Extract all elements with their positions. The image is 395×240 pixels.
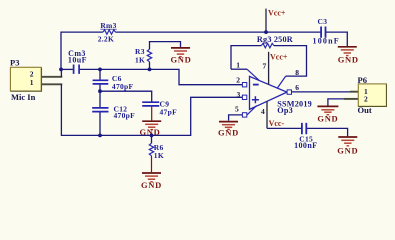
junction R3 bottom xyxy=(148,68,152,72)
svg-text:2: 2 xyxy=(236,76,240,85)
pin1 internal slant xyxy=(247,69,260,81)
svg-text:1: 1 xyxy=(30,78,34,87)
resistor R3 xyxy=(149,62,151,70)
capacitor C12 xyxy=(99,91,101,107)
svg-text:GND: GND xyxy=(337,146,358,156)
ground (P6 pin2) xyxy=(317,106,338,123)
wire bias node to Cm3 xyxy=(61,68,73,70)
svg-text:1: 1 xyxy=(236,60,240,69)
junction C6/C12/C9 node xyxy=(98,89,102,93)
svg-text:47pF: 47pF xyxy=(160,107,178,116)
svg-text:Vcc+: Vcc+ xyxy=(270,53,288,62)
svg-text:GND: GND xyxy=(171,55,192,65)
ground (C9) xyxy=(140,121,162,137)
svg-text:5: 5 xyxy=(235,104,239,113)
svg-text:Vcc+: Vcc+ xyxy=(268,8,286,17)
svg-text:Mic In: Mic In xyxy=(11,92,36,102)
minus mark xyxy=(253,84,259,86)
ground (R3) xyxy=(171,48,192,65)
resistor Rg3 loop wires xyxy=(231,46,307,77)
svg-text:100nF: 100nF xyxy=(313,37,340,46)
wire bottom rail P3 pin1 to op-amp pin3 xyxy=(61,84,242,135)
pin stub P3-2 xyxy=(42,76,63,78)
svg-text:2.2K: 2.2K xyxy=(98,35,114,44)
wire P3 pin2 up to bias node xyxy=(60,69,62,76)
resistor Rm3 xyxy=(103,30,116,34)
svg-text:1K: 1K xyxy=(154,151,164,160)
pin 4 Vcc- stub xyxy=(266,101,268,128)
capacitor Cm3 xyxy=(74,65,80,74)
svg-text:470pF: 470pF xyxy=(114,111,136,120)
svg-text:Op3: Op3 xyxy=(277,106,293,115)
svg-text:4: 4 xyxy=(261,107,265,116)
wire C9 to ground xyxy=(151,107,153,121)
svg-text:GND: GND xyxy=(218,127,239,137)
pin 3 square xyxy=(242,95,246,99)
wire op-amp output pin6 to P6 xyxy=(292,91,351,93)
pin stub P6-1 xyxy=(350,91,359,93)
pin5 internal slant xyxy=(247,106,257,115)
junction on Vcc rail xyxy=(264,30,268,34)
pin 7 Vcc+ stub xyxy=(268,52,270,85)
pin 6 square xyxy=(287,90,291,94)
op-amp Op3 SSM2019 triangle xyxy=(250,76,288,109)
svg-text:P3: P3 xyxy=(10,58,19,68)
wire Vcc- row to C15 xyxy=(267,127,301,129)
svg-text:6: 6 xyxy=(295,83,299,92)
svg-text:100nF: 100nF xyxy=(294,141,317,150)
svg-text:GND: GND xyxy=(317,114,338,124)
pin8 internal slant xyxy=(277,76,285,88)
svg-text:GND: GND xyxy=(338,54,359,64)
ground (C3) xyxy=(338,47,359,65)
svg-text:P6: P6 xyxy=(358,75,367,85)
wire op-amp pin1 xyxy=(231,68,247,70)
ground (C15) xyxy=(337,137,358,156)
svg-text:C3: C3 xyxy=(318,17,328,26)
wire C3 to ground xyxy=(326,32,347,46)
junction bias node xyxy=(59,68,63,72)
svg-text:1K: 1K xyxy=(135,55,145,64)
svg-text:Out: Out xyxy=(358,105,372,115)
svg-text:7: 7 xyxy=(263,61,267,70)
svg-text:470pF: 470pF xyxy=(112,82,134,91)
svg-text:3: 3 xyxy=(237,90,241,99)
svg-text:Vcc-: Vcc- xyxy=(269,119,285,128)
capacitor C6 on vertical wire xyxy=(99,69,101,79)
pin 5 square xyxy=(242,113,246,117)
resistor R6 xyxy=(151,135,153,143)
svg-text:8: 8 xyxy=(295,68,299,77)
capacitor C9 xyxy=(142,102,159,106)
connector P6 xyxy=(358,75,387,115)
svg-text:10uF: 10uF xyxy=(68,56,87,65)
svg-text:GND: GND xyxy=(141,180,162,190)
svg-text:Rg3 250R: Rg3 250R xyxy=(257,35,293,44)
wire P6 pin2 to ground xyxy=(328,99,344,106)
junction C12 bottom xyxy=(98,134,102,138)
wire C15 to ground xyxy=(307,128,348,136)
wire Vcc+ rail with bias vertical (node bias) xyxy=(61,32,321,69)
wire Cm3 to op-amp pin2 (with step) xyxy=(80,69,243,84)
ground (pin5) xyxy=(218,122,239,138)
svg-text:2: 2 xyxy=(364,95,368,104)
svg-text:2: 2 xyxy=(30,69,34,78)
wire pin5 to ground xyxy=(229,115,243,121)
ground (R6) xyxy=(141,173,162,190)
pin stub P6-2 xyxy=(344,98,359,100)
wire R6 to ground xyxy=(151,156,153,172)
junction R6 top xyxy=(150,134,154,138)
capacitor C15 xyxy=(302,123,306,134)
plus mark xyxy=(252,96,259,103)
wire R3 top to ground xyxy=(150,42,181,50)
junction C6 top xyxy=(98,68,102,72)
wire node to C9 xyxy=(100,91,152,101)
power port Vcc+ (top) xyxy=(265,9,267,32)
pin 2 square xyxy=(242,83,246,87)
resistor Rg3 xyxy=(261,43,274,47)
pin stub P3-1 xyxy=(42,83,63,85)
capacitor C3 xyxy=(321,27,325,38)
connector P3 xyxy=(10,58,42,102)
